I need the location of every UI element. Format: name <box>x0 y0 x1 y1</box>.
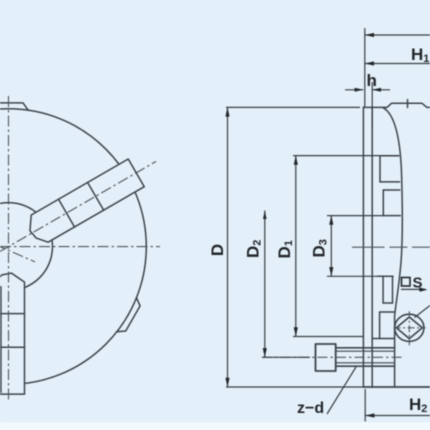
D bottom arrow <box>225 378 229 387</box>
D1 dimension line <box>295 156 297 337</box>
pinion shaft spline line 1 <box>336 350 395 352</box>
slot rect R2 top edge <box>383 189 400 191</box>
D3 top arrow <box>329 216 333 225</box>
D top extension line <box>226 106 360 108</box>
top boss tick <box>407 100 409 108</box>
pinion shaft bottom <box>336 365 395 367</box>
square socket circle <box>395 314 424 341</box>
S underline arrow <box>419 287 428 292</box>
back face line <box>362 107 364 387</box>
h dimension right tail <box>372 89 390 91</box>
D top arrow <box>225 107 229 116</box>
D2 bottom arrow <box>263 348 267 357</box>
lower step vertical <box>382 276 384 303</box>
H2 dimension line <box>365 415 430 417</box>
R1 left edge <box>379 156 381 182</box>
pinion head <box>316 344 336 371</box>
square socket diamond <box>396 317 422 339</box>
h left arrow <box>355 88 364 92</box>
bottom face <box>363 386 430 388</box>
horizontal centerline <box>0 246 160 248</box>
D1 bottom arrow <box>294 327 298 336</box>
h extension line <box>371 82 373 127</box>
D3 bottom arrow <box>329 267 333 276</box>
30 deg jaw axis centerline <box>0 161 156 251</box>
socket vertical centerline <box>408 311 410 345</box>
jaw J1 step line 2 <box>88 182 104 210</box>
label square-S <box>402 275 423 292</box>
pinion shaft spline line 2 <box>336 362 395 364</box>
socket horizontal centerline <box>394 327 426 329</box>
S underline with arrow <box>401 288 426 290</box>
H1 dimension line <box>365 63 430 65</box>
svg-text:D: D <box>208 244 227 256</box>
H extension line (back face extended) <box>364 28 366 107</box>
centerlines of front view <box>0 96 160 400</box>
h dimension left tail <box>345 89 363 91</box>
D2 extension line (pinion axis) <box>262 356 310 358</box>
vertical centerline <box>8 96 10 400</box>
lower step outer vertical <box>392 276 394 303</box>
adapter joint line <box>371 107 373 387</box>
jaw J2 step line 1 <box>0 313 25 315</box>
D1 top extension line <box>293 155 399 157</box>
D3 top extension line <box>327 215 383 217</box>
S leader segment <box>415 306 430 318</box>
top face with rim boss bump <box>363 103 430 107</box>
D bottom extension line <box>226 386 363 388</box>
jaw J2 step line 2 <box>0 346 25 348</box>
bottom white margin band <box>0 423 430 430</box>
H dimension line (top, label cut off) <box>365 34 430 36</box>
pinion axis centerline <box>262 356 403 358</box>
chuck body outer circle (front view) <box>0 109 146 385</box>
socket boss left edge <box>379 312 381 339</box>
H2 arrow <box>365 413 374 417</box>
svg-text:S: S <box>413 275 423 292</box>
socket boss bottom edge <box>372 338 394 340</box>
lower slot edge line <box>378 275 393 277</box>
D1 bottom extension line <box>293 336 363 338</box>
D2 top arrow <box>263 211 267 220</box>
socket boss top edge <box>380 311 395 313</box>
lower step horizontal <box>383 302 392 304</box>
arrowheads <box>225 33 427 418</box>
H2 extension line <box>364 389 366 422</box>
D1 top arrow <box>294 156 298 165</box>
150 deg jaw axis centerline <box>0 244 35 262</box>
H arrow <box>365 33 374 37</box>
side view centerlines <box>262 247 430 357</box>
jaw J2 (270 deg, bottom) <box>0 273 25 394</box>
D3 dimension line <box>330 216 332 277</box>
R2 left edge <box>382 190 384 216</box>
svg-text:h: h <box>367 71 377 90</box>
jaw guideway upper rect R1 top edge <box>380 155 399 157</box>
D dimension line <box>227 107 229 387</box>
R2 bottom edge <box>383 215 400 217</box>
pinion shaft top <box>336 347 395 349</box>
front contour curve <box>383 108 402 387</box>
jaw J1 (30 deg, upper right) <box>23 159 144 247</box>
section center mark <box>352 246 430 248</box>
D3 bottom extension line <box>327 275 378 277</box>
R1 bottom edge <box>380 181 400 183</box>
H1 arrow <box>365 61 374 65</box>
svg-text:z−d: z−d <box>297 400 324 417</box>
rim boss at 330 deg (lower right) <box>117 298 140 332</box>
jaw J1 step line 1 <box>59 199 75 227</box>
rim boss at 90 deg (top) <box>0 103 28 110</box>
D2 dimension line <box>264 211 266 358</box>
h right arrow <box>372 88 381 92</box>
hub circle <box>0 203 53 291</box>
z-d leader line <box>327 367 356 414</box>
jaw J2 longitudinal step line <box>0 287 2 393</box>
